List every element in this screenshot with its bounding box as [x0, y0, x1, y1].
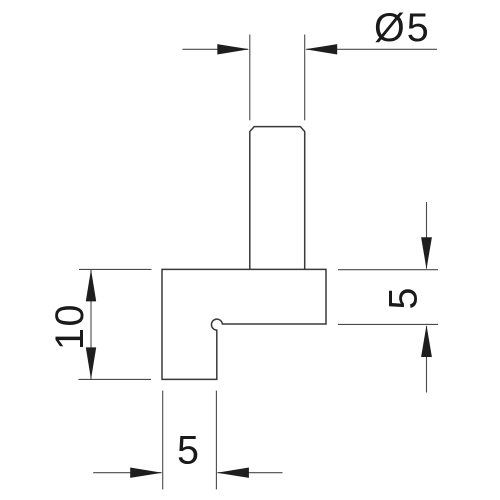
extension line right of bottom 5 dimension: [215, 391, 217, 490]
arrowhead 10 bottom (points down): [86, 347, 96, 379]
arrowhead Ø5 right (points left): [305, 44, 337, 54]
extension line top of right 5 dimension: [338, 269, 438, 271]
arrowhead 10 top (points up): [86, 269, 96, 301]
dimension line right 5 upper segment: [426, 202, 428, 269]
dimension line Ø5 left segment: [182, 48, 248, 50]
extension line left of bottom 5 dimension: [162, 391, 164, 490]
dimension line bottom 5 left segment: [93, 472, 161, 474]
svg-text:10: 10: [48, 303, 92, 350]
arrowhead bottom 5 left (points right): [130, 468, 162, 478]
part outline: cylindrical stem with chamfered top: [250, 127, 305, 270]
extension line top of 10 dimension: [79, 268, 152, 270]
extension line left of Ø5 (stem left silhouette): [249, 35, 251, 121]
svg-text:5: 5: [382, 288, 426, 310]
svg-text:5: 5: [177, 429, 199, 473]
dimension line right 5 lower segment: [426, 326, 428, 393]
extension line bottom of 10 dimension: [79, 378, 152, 380]
dimension line Ø5 right segment: [306, 48, 437, 50]
svg-text:Ø5: Ø5: [374, 6, 431, 50]
arrowhead right 5 top (points down): [421, 237, 432, 269]
dimension line 10 (vertical): [90, 269, 92, 379]
arrowhead right 5 bottom (points up): [421, 325, 432, 357]
part outline: L-shaped base plate with relief notch at inner corner: [162, 269, 326, 379]
extension line right of Ø5 (stem right silhouette): [304, 35, 306, 121]
arrowhead bottom 5 right (points left): [217, 468, 249, 478]
extension line bottom of right 5 dimension: [338, 323, 438, 325]
dimension line bottom 5 right segment: [218, 472, 283, 474]
arrowhead Ø5 left (points right): [217, 44, 249, 54]
